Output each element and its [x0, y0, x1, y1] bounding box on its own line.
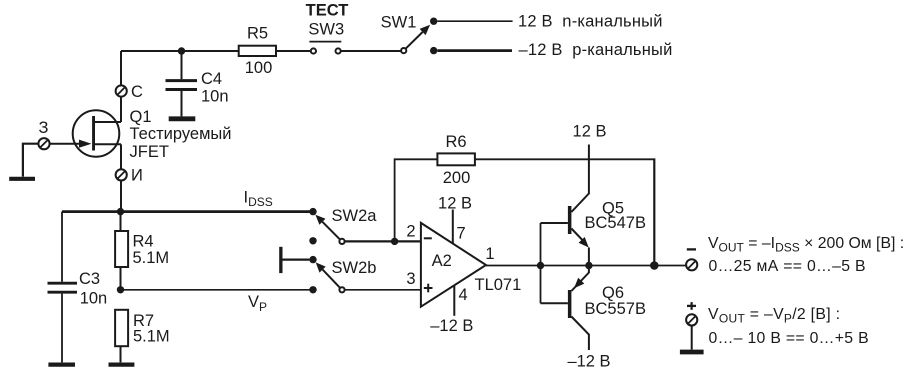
- wire drain vertical: [120, 51, 122, 122]
- svg-text:100: 100: [245, 59, 273, 77]
- op-amp A2: [421, 223, 486, 307]
- transistor Q5: [541, 145, 589, 266]
- resistor R7: [115, 310, 128, 346]
- wire R6 feedback left vertical: [395, 159, 438, 241]
- pin 4 number: [459, 286, 468, 304]
- wire op-amp output to terminal: [486, 265, 686, 267]
- junction node emitters: [585, 262, 592, 269]
- svg-text:VOUT = –IDSS × 200 Ом [В] :: VOUT = –IDSS × 200 Ом [В] :: [708, 235, 904, 254]
- svg-text:IDSS: IDSS: [244, 188, 273, 209]
- svg-text:TL071: TL071: [475, 276, 522, 294]
- pin 1 number: [485, 245, 494, 263]
- switch SW3: [309, 42, 341, 54]
- capacitor C4: [166, 81, 198, 90]
- wire plus terminal to ground: [691, 326, 693, 350]
- wire top rail from drain corner to R5: [121, 50, 239, 52]
- svg-text:A2: A2: [432, 252, 452, 270]
- junction node top rail / C4: [178, 47, 185, 54]
- svg-text:R6: R6: [445, 133, 466, 151]
- svg-text:R4: R4: [133, 233, 154, 251]
- svg-text:12 В: 12 В: [438, 195, 472, 213]
- label ТЕСТ: [306, 1, 349, 19]
- wire +12V rail: [437, 20, 512, 22]
- svg-text:SW3: SW3: [308, 21, 344, 39]
- svg-text:C: C: [131, 83, 143, 101]
- wire IDSS node to R4: [120, 212, 122, 230]
- junction node output / bases: [537, 262, 544, 269]
- svg-text:VOUT = –VP/2 [В] :: VOUT = –VP/2 [В] :: [708, 306, 840, 325]
- ground (R7): [109, 363, 135, 367]
- svg-text:200: 200: [443, 169, 471, 187]
- value 10n (C4): [201, 88, 229, 106]
- label И (source): [131, 167, 143, 185]
- svg-text:C3: C3: [79, 270, 100, 288]
- value 5.1M (R7): [133, 328, 170, 346]
- label SW2a: [332, 207, 378, 225]
- svg-text:VP: VP: [248, 293, 267, 314]
- wire R6 right to output: [475, 158, 654, 265]
- svg-text:JFET: JFET: [130, 143, 169, 161]
- wire gate to ground: [23, 144, 38, 177]
- svg-text:–12 В: –12 В: [567, 353, 610, 371]
- capacitor C3: [48, 283, 78, 292]
- wire SW2a to pin 2: [345, 240, 421, 242]
- svg-text:12 В: 12 В: [573, 123, 607, 141]
- terminal C (drain): [116, 85, 127, 96]
- wire C3 to ground: [61, 294, 63, 363]
- wire base link: [540, 223, 542, 303]
- value 200: [443, 169, 471, 187]
- wire R4 to VP node: [120, 268, 122, 290]
- label IDSS: [244, 188, 273, 209]
- wire net IDSS: [62, 210, 313, 213]
- label 3 (gate terminal): [39, 119, 49, 137]
- svg-text:SW2b: SW2b: [332, 259, 377, 277]
- label 12 В (Q5 collector): [573, 123, 607, 141]
- svg-text:З: З: [39, 119, 49, 137]
- resistor R5: [239, 46, 276, 56]
- wire C4 to ground: [181, 91, 183, 116]
- junction node VP: [117, 286, 124, 293]
- value 5.1M (R4): [133, 249, 170, 267]
- terminal VOUT minus: [686, 259, 697, 270]
- label SW3: [308, 21, 344, 39]
- wire pin 7 supply: [452, 210, 454, 245]
- wire top rail junction down to C4: [181, 51, 183, 79]
- svg-text:0…– 10 В == 0…+5 В: 0…– 10 В == 0…+5 В: [709, 330, 869, 347]
- value 100: [245, 59, 273, 77]
- label C3: [79, 270, 100, 288]
- svg-text:1: 1: [485, 245, 494, 263]
- svg-text:3: 3: [406, 270, 415, 288]
- minus sign (output terminal): [687, 248, 696, 250]
- label VP: [248, 293, 267, 314]
- resistor R4: [115, 231, 128, 267]
- label A2: [432, 252, 452, 270]
- label R4: [133, 233, 154, 251]
- label SW2b: [332, 259, 377, 277]
- svg-text:SW2a: SW2a: [332, 207, 378, 225]
- label -12 В (op-amp): [430, 317, 473, 335]
- label -12 В (Q6 collector): [567, 353, 610, 371]
- transistor Q1 (JFET under test): [50, 110, 121, 157]
- junction node feedback: [650, 261, 659, 270]
- label JFET: [130, 143, 169, 161]
- svg-text:4: 4: [459, 286, 468, 304]
- label Q6: [602, 284, 624, 302]
- label VOUT formula IDSS: [708, 235, 904, 254]
- switch SW1: [401, 18, 437, 55]
- svg-text:C4: C4: [201, 70, 222, 88]
- svg-text:BC547B: BC547B: [585, 214, 646, 232]
- svg-text:7: 7: [457, 225, 466, 243]
- terminal З (gate): [38, 138, 49, 149]
- svg-text:–12 В p-канальный: –12 В p-канальный: [519, 41, 673, 59]
- ground (C4): [169, 116, 196, 121]
- wire R5 to SW3: [277, 50, 310, 52]
- transistor Q6: [541, 266, 589, 351]
- wire net VP: [121, 289, 314, 291]
- wire SW3 to SW1: [341, 50, 401, 52]
- label BC557B: [585, 300, 646, 318]
- svg-text:–12 В: –12 В: [430, 317, 473, 335]
- label range 0-10V: [709, 330, 869, 347]
- plus sign (reference terminal): [687, 302, 696, 310]
- svg-text:10n: 10n: [201, 88, 229, 106]
- label Q1: [130, 108, 152, 126]
- svg-text:0…25 мА == 0…–5 В: 0…25 мА == 0…–5 В: [709, 258, 866, 275]
- svg-text:И: И: [131, 167, 143, 185]
- svg-text:Тестируемый: Тестируемый: [130, 125, 232, 143]
- label range 0-25mA: [709, 258, 866, 275]
- wire source vertical: [120, 144, 122, 211]
- label BC547B: [585, 214, 646, 232]
- svg-text:SW1: SW1: [381, 14, 417, 32]
- resistor R6: [437, 153, 475, 165]
- wire IDSS to C3: [61, 212, 63, 282]
- wire R7 to ground: [120, 346, 122, 362]
- label C4: [201, 70, 222, 88]
- wire pin 4 supply: [453, 285, 455, 316]
- ground (output reference): [680, 350, 704, 355]
- svg-text:BC557B: BC557B: [585, 300, 646, 318]
- terminal И (source): [116, 169, 127, 180]
- label -12 В p-канальный: [519, 41, 673, 59]
- pushbutton SW2b actuator: [279, 247, 309, 273]
- pin 3 number: [406, 270, 415, 288]
- wire SW2b to pin 3: [345, 289, 421, 291]
- label Тестируемый: [130, 125, 232, 143]
- label R6: [445, 133, 466, 151]
- pin 7 number: [457, 225, 466, 243]
- ground (gate): [9, 177, 35, 181]
- switch SW2a: [309, 208, 344, 245]
- label R5: [247, 25, 268, 43]
- value 10n (C3): [80, 290, 108, 308]
- svg-text:2: 2: [406, 223, 415, 241]
- svg-text:5.1M: 5.1M: [133, 249, 170, 267]
- label Q5: [602, 200, 624, 218]
- svg-text:5.1M: 5.1M: [133, 328, 170, 346]
- terminal VOUT plus: [686, 314, 697, 325]
- svg-text:R5: R5: [247, 25, 268, 43]
- wire -12V rail: [437, 49, 512, 52]
- ground (C3): [48, 363, 75, 367]
- svg-text:12 В n-канальный: 12 В n-канальный: [518, 13, 663, 31]
- label SW1: [381, 14, 417, 32]
- label 12 В (op-amp): [438, 195, 472, 213]
- switch SW2b: [309, 256, 344, 294]
- label 12 В n-канальный: [518, 13, 663, 31]
- svg-text:Q1: Q1: [130, 108, 152, 126]
- label C (drain): [131, 83, 143, 101]
- label TL071: [475, 276, 522, 294]
- junction node inverting input / R6: [391, 238, 398, 245]
- pin 2 number: [406, 223, 415, 241]
- label R7: [133, 312, 154, 330]
- junction node IDSS / source column: [117, 208, 124, 215]
- svg-text:10n: 10n: [80, 290, 108, 308]
- label VOUT formula VP: [708, 306, 840, 325]
- svg-text:ТЕСТ: ТЕСТ: [306, 1, 349, 19]
